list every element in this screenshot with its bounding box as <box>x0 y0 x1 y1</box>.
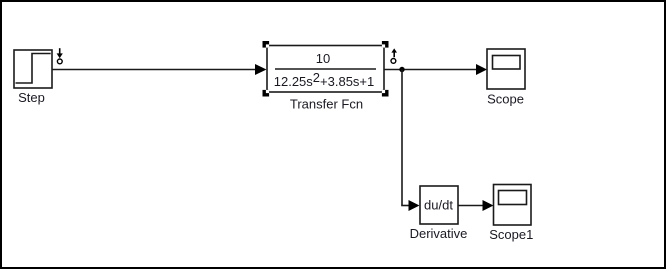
svg-text:Scope1: Scope1 <box>489 227 533 242</box>
block Derivative <box>420 186 458 224</box>
svg-text:Scope: Scope <box>487 92 524 107</box>
block Transfer Fcn <box>267 46 384 93</box>
port marker at Step output (down arrow + circle) <box>57 48 63 64</box>
selection handle top-right <box>382 41 389 48</box>
selection handle bottom-right <box>382 90 389 97</box>
wire branch down <box>401 70 403 206</box>
arrowhead into Scope1 <box>483 200 494 211</box>
svg-text:Step: Step <box>18 90 45 105</box>
junction node <box>399 67 404 72</box>
port marker at Transfer Fcn output (up arrow + circle) <box>391 48 397 63</box>
arrowhead into Transfer Fcn <box>255 64 267 75</box>
wire Step to Transfer Fcn <box>52 69 256 71</box>
svg-text:du/dt: du/dt <box>424 198 453 213</box>
block Scope1 <box>494 185 532 226</box>
wire Transfer Fcn to Scope <box>384 69 478 71</box>
wire branch to Derivative <box>401 205 410 207</box>
svg-text:10: 10 <box>316 51 330 66</box>
block Step <box>14 50 52 88</box>
arrowhead into Derivative <box>409 200 420 211</box>
selection handle bottom-left <box>263 90 270 97</box>
arrowhead into Scope <box>476 64 487 75</box>
selection handle top-left <box>263 41 270 48</box>
svg-text:Derivative: Derivative <box>410 226 468 241</box>
wire Derivative to Scope1 <box>458 205 484 207</box>
svg-text:Transfer Fcn: Transfer Fcn <box>290 97 363 112</box>
block Scope <box>487 49 525 89</box>
